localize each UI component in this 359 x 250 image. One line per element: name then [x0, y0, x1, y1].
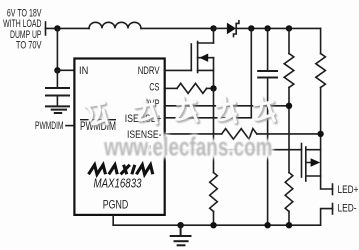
node LED top [317, 131, 323, 137]
transistor Q1 NMOS [191, 28, 213, 88]
ground main [171, 225, 191, 245]
wire ISENSE- pin [165, 133, 222, 135]
node rail B [264, 25, 270, 31]
svg-text:PGND: PGND [103, 198, 129, 212]
wire R1 to source node [207, 87, 214, 89]
wire ISENSE+ line [165, 28, 252, 117]
wire VIN to inductor [46, 27, 90, 29]
wire cathode to output rail [236, 27, 320, 29]
node drain junction [210, 25, 216, 31]
capacitor C2 output [258, 28, 277, 225]
input terminal VIN [45, 22, 47, 35]
wire R2 to ground rail [213, 212, 215, 226]
resistor R3 isense filter [222, 129, 257, 140]
node VIN junction [54, 25, 60, 31]
transistor Q2 PMOS [302, 144, 321, 182]
wire R3 to LED node [257, 133, 321, 135]
resistor R6 led sense [316, 28, 326, 176]
wire PMOS to LED+ [321, 176, 333, 189]
node CS junction [210, 85, 216, 91]
node rail C [286, 25, 292, 31]
svg-text:PWMDIM: PWMDIM [35, 120, 64, 132]
wire NDRV to gate [165, 69, 192, 71]
svg-text:LED-: LED- [338, 202, 357, 214]
resistor R2 sense [210, 173, 218, 212]
node gnd D [286, 222, 292, 228]
wire LED- return [321, 209, 333, 226]
wire IN pin [57, 69, 74, 71]
wire PWMDIM [66, 125, 74, 127]
svg-text:www.elecfans.com: www.elecfans.com [103, 131, 272, 161]
wire DIMOUT line [165, 149, 302, 151]
inductor L1 [89, 22, 141, 28]
capacitor C1 input [46, 70, 69, 106]
node rail A [248, 25, 254, 31]
wire CS pin [165, 87, 178, 89]
resistor R4 OVP top [284, 28, 294, 172]
resistor R5 OVP bottom [285, 173, 293, 226]
node OVP tap [286, 103, 292, 109]
svg-text:LED+: LED+ [338, 184, 359, 196]
wire OVP line [165, 105, 290, 107]
node gnd B [210, 222, 216, 228]
resistor R1 CS [177, 83, 207, 93]
watermark url [103, 131, 272, 161]
svg-text:CS: CS [149, 81, 160, 93]
op-amp U1 MAX16833 IC box [74, 59, 164, 215]
svg-text:NDRV: NDRV [138, 65, 160, 77]
node gnd C [264, 222, 270, 228]
svg-text:TO 70V: TO 70V [16, 40, 42, 52]
pin PWMDIM internal [80, 119, 116, 133]
ground input [46, 106, 69, 113]
wire anode [214, 27, 227, 29]
wire ground rail [113, 224, 320, 226]
terminal LED+ [332, 184, 334, 195]
diode D1 schottky [227, 21, 239, 37]
node gnd A [177, 222, 183, 228]
label input voltage [3, 7, 42, 51]
wire inductor to drain node [141, 27, 214, 29]
terminal LED- [332, 204, 334, 215]
node IN junction [54, 67, 60, 73]
svg-text:MAX16833: MAX16833 [94, 175, 143, 190]
wire VIN down to IN [56, 28, 58, 70]
wire sense line down [213, 88, 215, 172]
svg-text:IN: IN [79, 65, 88, 77]
wire PGND down [112, 216, 114, 226]
maxim logo [89, 165, 153, 175]
